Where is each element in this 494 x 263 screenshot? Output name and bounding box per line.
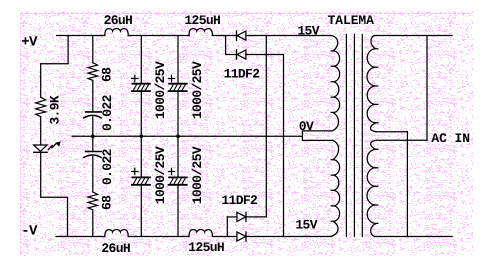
label 15V bottom (295, 217, 317, 232)
capacitor C6 1000/25V bottom second (177, 136, 179, 177)
wire V2 down to AC return (406, 132, 408, 237)
svg-text:26uH: 26uH (101, 241, 130, 256)
svg-text:11DF2: 11DF2 (224, 67, 261, 82)
svg-text:15V: 15V (295, 217, 317, 232)
wire C1 to 0V (92, 117, 94, 136)
wire V1 up to top AC line (426, 36, 428, 141)
transformer core lines (346, 35, 362, 237)
svg-text:11DF2: 11DF2 (221, 193, 258, 208)
wire C4 to -V rail (140, 186, 142, 237)
svg-text:0V: 0V (299, 119, 314, 134)
inductor L3 26uH bottom (105, 230, 128, 237)
inductor L2 125uH top (189, 29, 212, 36)
wire jog +V corner (41, 36, 68, 64)
resistor R1 3.9K (40, 64, 42, 98)
capacitor C2 0.022 bottom (92, 136, 94, 151)
svg-text:0.022: 0.022 (100, 148, 115, 185)
wire D3 cathode to tap feed (246, 216, 266, 218)
wire C6 to -V rail (177, 186, 179, 237)
wire bottom AC line (375, 236, 453, 238)
wire top rail left segment (57, 35, 105, 37)
capacitor C4 1000/25V bottom (140, 136, 142, 177)
diode D4 (237, 232, 246, 241)
capacitor C3 1000/25V top: branch wire (140, 36, 142, 84)
junction dot (140, 134, 144, 138)
label AC IN (431, 131, 470, 146)
wire -V rail left segment (56, 236, 105, 238)
capacitor C3 plates (132, 83, 150, 85)
label 11DF2 bottom (221, 193, 258, 208)
transformer T1 TALEMA (328, 13, 375, 28)
wire -V rail into diode D4 (212, 236, 237, 238)
wire primary upper bottom end H1 (376, 131, 407, 133)
diode D1 (236, 31, 238, 40)
svg-text:15V: 15V (297, 23, 319, 38)
svg-text:1000/25V: 1000/25V (190, 146, 205, 204)
capacitor C3 plus sign (132, 75, 138, 81)
svg-text:-V: -V (21, 223, 38, 239)
wire D4 cathode to transformer 15V bottom (246, 236, 331, 238)
svg-text:TALEMA: TALEMA (328, 13, 375, 28)
node -V label (21, 223, 38, 239)
svg-text:1000/25V: 1000/25V (153, 61, 168, 119)
label 15V top (297, 23, 319, 38)
svg-text:68: 68 (99, 67, 114, 82)
svg-text:125uH: 125uH (184, 13, 220, 28)
wire top AC line (375, 35, 453, 37)
wire D1 anode to transformer 15V top (246, 35, 331, 37)
svg-text:125uH: 125uH (188, 240, 224, 255)
wire R2 to C1 (92, 80, 94, 111)
wire R3 to -V rail (92, 210, 94, 237)
LED D5 (34, 145, 47, 151)
wire C5 to mid (177, 92, 179, 136)
inductor L1 26uH top (105, 29, 128, 36)
wire tap feed vertical to D3 (265, 36, 267, 217)
node +V label (21, 35, 38, 51)
secondary winding lower half (331, 140, 340, 236)
primary winding upper half (367, 36, 378, 132)
secondary winding upper half (331, 36, 340, 131)
wire LED to -V jog (41, 152, 68, 236)
wire top rail into diode D1 (212, 35, 236, 37)
svg-text:1000/25V: 1000/25V (153, 146, 168, 204)
junction dot (91, 134, 95, 138)
node 0V label (299, 119, 314, 134)
diode D3 (237, 212, 246, 221)
wire C3 to mid (140, 92, 142, 136)
wire top rail mid segment (128, 35, 189, 37)
wire 0V mid rail (72, 135, 302, 137)
diode D2 (236, 50, 238, 59)
resistor R3 68 bottom (88, 192, 98, 210)
primary winding lower half (367, 140, 378, 236)
wire -V rail mid segment (128, 236, 189, 238)
svg-text:0.022: 0.022 (100, 94, 115, 131)
svg-text:3.9K: 3.9K (47, 95, 62, 124)
svg-text:1000/25V: 1000/25V (190, 61, 205, 119)
svg-text:+V: +V (21, 35, 38, 51)
label 11DF2 top (224, 67, 261, 82)
wire anode join D3-D4 (226, 217, 228, 237)
inductor L4 125uH bottom (189, 230, 212, 237)
capacitor C1 0.022 top (86, 111, 102, 113)
svg-text:AC IN: AC IN (431, 131, 470, 146)
wire 68 branch top (92, 36, 94, 63)
svg-text:26uH: 26uH (104, 13, 133, 28)
wire C2 to R3 (92, 157, 94, 192)
svg-text:68: 68 (99, 195, 114, 210)
resistor R2 68 top (88, 63, 98, 81)
wire D2 anode jog down to lower 15V tap (246, 55, 284, 237)
wire 0V tap bracket (302, 131, 333, 141)
wire R1 to LED (40, 117, 42, 145)
capacitor C5 1000/25V top second: branch wire (177, 36, 179, 84)
junction dot (176, 134, 180, 138)
wire primary lower top end H2 to AC IN (377, 139, 428, 141)
wire cathode join D1-D2 (226, 36, 237, 55)
